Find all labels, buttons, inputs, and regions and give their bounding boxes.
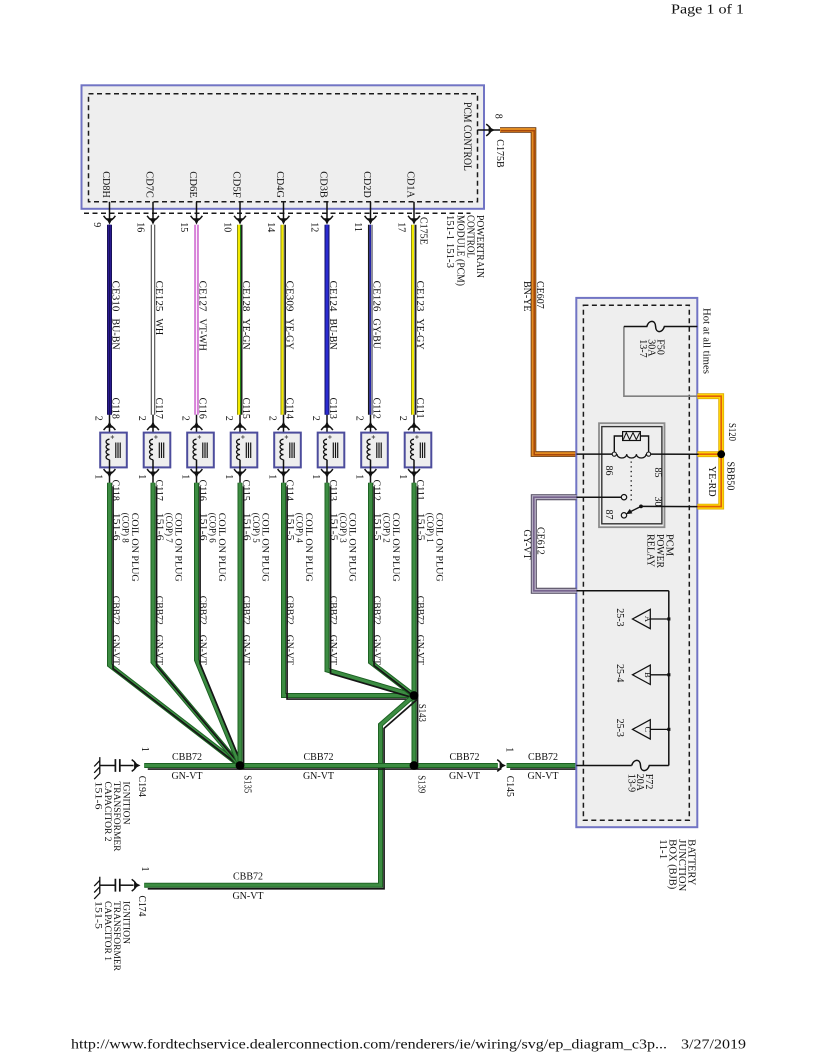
svg-text:1: 1: [93, 474, 104, 479]
svg-text:GN-VT: GN-VT: [171, 771, 202, 782]
coil core lines: [159, 443, 163, 459]
wire CBB72 GN-VT: [153, 483, 240, 766]
coil polarity mark: [328, 435, 331, 438]
svg-text:CD2D: CD2D: [361, 171, 372, 198]
connector arrow out of PCM: [150, 218, 156, 224]
relay coil: [617, 454, 646, 458]
svg-text:PCM CONTROL: PCM CONTROL: [461, 102, 473, 171]
wire CBB72 GN-VT: [197, 483, 241, 766]
svg-text:B: B: [643, 672, 653, 678]
coil on plug 6 box: [187, 433, 214, 468]
svg-text:S143: S143: [416, 704, 427, 722]
svg-text:CD1A: CD1A: [404, 171, 415, 198]
svg-text:CE607: CE607: [534, 281, 545, 309]
connector arrow C175B: [489, 127, 495, 133]
pin 86 line: [577, 453, 613, 455]
svg-text:GN-VT: GN-VT: [284, 635, 295, 665]
svg-text:25-4: 25-4: [614, 664, 625, 682]
stub out of coil: [152, 460, 154, 483]
stub out of coil: [239, 460, 241, 483]
svg-text:11-1: 11-1: [657, 839, 668, 859]
diode bus vertical: [668, 591, 670, 766]
BJB inner dashed border: [583, 305, 689, 820]
coil connector arrow (pin 1): [150, 472, 156, 478]
svg-text:http://www.fordtechservice.dea: http://www.fordtechservice.dealerconnect…: [71, 1037, 667, 1052]
svg-text:25-3: 25-3: [614, 719, 625, 737]
svg-text:YE-GY: YE-GY: [414, 319, 425, 350]
svg-text:CBB72: CBB72: [172, 752, 202, 763]
coil polarity mark: [241, 435, 244, 438]
svg-text:2: 2: [397, 416, 408, 421]
wire stub to S120: [697, 451, 719, 457]
svg-text:C111: C111: [414, 398, 425, 419]
wire CE310 BU-BN: [107, 225, 112, 415]
capacitor CAPACITOR 1 plates: [115, 879, 119, 892]
svg-text:C: C: [643, 727, 653, 733]
coil polarity mark: [285, 435, 288, 438]
pin stub wire: [326, 202, 328, 223]
svg-text:16: 16: [134, 222, 145, 232]
svg-text:BU-BN: BU-BN: [109, 319, 120, 350]
svg-text:RELAY: RELAY: [645, 534, 656, 567]
svg-text:CBB72: CBB72: [153, 596, 164, 625]
svg-text:30: 30: [652, 497, 663, 507]
pin 87 line: [577, 496, 622, 498]
coil connector arrow (pin 1): [193, 472, 199, 478]
svg-text:GN-VT: GN-VT: [153, 635, 164, 665]
connector arrow C145: [500, 762, 506, 768]
svg-text:GN-VT: GN-VT: [371, 635, 382, 665]
coil connector arrow (pin 2): [367, 421, 373, 427]
resistor links: [614, 436, 648, 452]
fuse F50 box: [624, 327, 697, 397]
svg-text:GN-VT: GN-VT: [449, 771, 480, 782]
connector arrow C174: [134, 882, 140, 888]
svg-text:87: 87: [603, 510, 614, 520]
connector arrow out of PCM: [193, 218, 199, 224]
coil connector arrow (pin 1): [237, 472, 243, 478]
connector arrow out of PCM: [237, 218, 243, 224]
svg-text:YE-RD: YE-RD: [706, 466, 717, 497]
stub out of coil: [370, 460, 372, 483]
coil core lines: [290, 443, 294, 459]
coil core lines: [377, 443, 381, 459]
connector C175E dashed face: [84, 212, 471, 214]
stub into coil connector: [239, 415, 241, 440]
svg-text:GN-VT: GN-VT: [197, 635, 208, 665]
wire CBB72 GN-VT: [327, 483, 414, 696]
splice S143: [410, 691, 419, 700]
svg-text:GN-VT: GN-VT: [232, 891, 263, 902]
coil connector arrow (pin 2): [411, 421, 417, 427]
wire S143 to S139: [412, 696, 417, 766]
svg-text:C174: C174: [136, 896, 147, 917]
svg-text:1: 1: [180, 474, 191, 479]
wire CBB72 GN-VT: [371, 483, 415, 696]
svg-text:CE126: CE126: [370, 281, 381, 312]
stub out of coil: [413, 460, 415, 483]
coil connector arrow (pin 1): [324, 472, 330, 478]
coil connector arrow (pin 2): [106, 421, 112, 427]
svg-text:GN-VT: GN-VT: [240, 635, 251, 665]
wire CE127 VT-WH: [194, 225, 199, 415]
svg-text:3/27/2019: 3/27/2019: [681, 1037, 746, 1052]
coil winding symbol: [280, 439, 283, 460]
svg-text:14: 14: [265, 222, 276, 232]
svg-text:25-3: 25-3: [614, 608, 625, 626]
svg-text:C175E: C175E: [417, 217, 428, 245]
coil core lines: [203, 443, 207, 459]
splice S120: [717, 450, 725, 458]
coil on plug 4 box: [274, 433, 301, 468]
svg-text:8: 8: [492, 114, 503, 119]
svg-text:CBB72: CBB72: [371, 596, 382, 625]
coil connector arrow (pin 1): [411, 472, 417, 478]
svg-text:CD8H: CD8H: [100, 171, 111, 198]
relay contact pivot: [621, 513, 626, 518]
svg-text:1: 1: [504, 747, 515, 752]
pin stub wire: [413, 202, 415, 223]
svg-text:CE125: CE125: [153, 281, 164, 312]
svg-text:12: 12: [308, 222, 319, 232]
wire C194 to C145 main run: [144, 763, 498, 768]
svg-text:1: 1: [354, 474, 365, 479]
svg-text:C145: C145: [504, 776, 515, 797]
connector arrow out of PCM: [411, 218, 417, 224]
coil winding symbol: [237, 439, 240, 460]
svg-text:C175B: C175B: [494, 139, 505, 168]
fuse F50 element: [624, 321, 697, 331]
wire CE123 YE-GY: [412, 225, 415, 415]
svg-text:CE127: CE127: [196, 281, 207, 312]
coil core lines: [246, 443, 250, 459]
svg-text:C113: C113: [327, 398, 338, 419]
svg-text:A: A: [643, 616, 653, 623]
splice S135: [236, 761, 245, 770]
wire into F72: [576, 765, 631, 767]
PCM module box: [82, 85, 485, 209]
svg-text:151-1 151-3: 151-1 151-3: [444, 215, 455, 268]
svg-text:85: 85: [652, 468, 663, 478]
svg-text:CBB72: CBB72: [240, 596, 251, 625]
svg-text:2: 2: [223, 416, 234, 421]
wire to capacitor: [100, 765, 116, 767]
svg-text:SBB50: SBB50: [724, 462, 735, 491]
svg-text:CD5F: CD5F: [230, 171, 241, 198]
connector arrow out of PCM: [280, 218, 286, 224]
svg-text:CBB72: CBB72: [327, 596, 338, 625]
coil connector arrow (pin 1): [280, 472, 286, 478]
pin stub wire: [196, 202, 198, 223]
ground for C194: [94, 757, 100, 779]
connector arrow C194: [134, 762, 140, 768]
pin stub wire: [370, 202, 372, 223]
svg-text:S120: S120: [726, 423, 737, 441]
relay outer box: [599, 423, 665, 527]
svg-text:YE-GN: YE-GN: [240, 319, 251, 350]
svg-text:C112: C112: [370, 398, 381, 419]
diode C 25-3: [650, 728, 669, 730]
svg-text:17: 17: [395, 222, 406, 232]
svg-text:2: 2: [180, 416, 191, 421]
stub into coil connector: [152, 415, 154, 440]
coil core lines: [420, 443, 424, 459]
svg-text:CD4G: CD4G: [274, 171, 285, 198]
svg-text:9: 9: [91, 222, 102, 227]
svg-text:2: 2: [93, 416, 104, 421]
svg-text:S135: S135: [241, 775, 252, 793]
wire plate to connector: [120, 884, 134, 886]
svg-text:1: 1: [139, 747, 150, 752]
coil winding symbol: [193, 439, 196, 460]
svg-text:BN-YE: BN-YE: [521, 281, 532, 312]
relay coil terminals: [612, 452, 616, 456]
connector arrow out of PCM: [106, 218, 112, 224]
svg-text:S139: S139: [415, 775, 426, 793]
svg-text:1: 1: [310, 474, 321, 479]
svg-text:CBB72: CBB72: [233, 871, 263, 882]
svg-text:GN-VT: GN-VT: [327, 635, 338, 665]
relay actuator dotted line: [630, 462, 632, 502]
svg-text:CBB72: CBB72: [284, 596, 295, 625]
pin 85 line: [651, 453, 699, 455]
wire SBB50 YE-RD: [697, 396, 721, 506]
battery junction box: [576, 298, 697, 827]
connector arrow out of PCM: [324, 218, 330, 224]
stub into coil connector: [109, 415, 111, 440]
coil winding symbol: [324, 439, 327, 460]
wire CBB72 GN-VT: [110, 483, 241, 766]
svg-text:CE612: CE612: [534, 527, 545, 555]
capacitor CAPACITOR 2 plates: [115, 759, 119, 772]
wire CE607 BN-YE: [500, 130, 577, 454]
relay switch blade: [629, 506, 642, 512]
svg-text:86: 86: [603, 466, 614, 476]
wire S143 to C174 capacitor: [144, 696, 414, 886]
svg-text:GY-BU: GY-BU: [370, 319, 381, 350]
svg-text:GN-VT: GN-VT: [527, 771, 558, 782]
svg-text:YE-GY: YE-GY: [283, 319, 294, 350]
svg-text:CBB72: CBB72: [110, 596, 121, 625]
svg-text:1: 1: [139, 867, 150, 872]
pin 30 line: [641, 505, 697, 507]
svg-text:2: 2: [267, 416, 278, 421]
stub into coil connector: [370, 415, 372, 440]
coil on plug 1 box: [405, 433, 432, 468]
svg-text:C115: C115: [240, 398, 251, 419]
coil winding symbol: [411, 439, 414, 460]
svg-text:1: 1: [223, 474, 234, 479]
relay inner box: [602, 427, 662, 524]
wire CE124 BU-BN: [325, 225, 330, 415]
pin 8 stub out of PCM: [478, 129, 501, 131]
coil connector arrow (pin 1): [367, 472, 373, 478]
svg-text:CBB72: CBB72: [414, 596, 425, 625]
coil core lines: [333, 443, 337, 459]
svg-text:CE309: CE309: [283, 281, 294, 312]
svg-text:CBB72: CBB72: [528, 752, 558, 763]
svg-text:15: 15: [178, 222, 189, 232]
svg-text:CE124: CE124: [327, 281, 338, 312]
coil winding symbol: [367, 439, 370, 460]
wire to capacitor: [100, 884, 116, 886]
svg-text:151-5: 151-5: [93, 901, 103, 929]
coil polarity mark: [415, 435, 418, 438]
stub out of coil: [196, 460, 198, 483]
coil on plug 3 box: [318, 433, 345, 468]
wire plate to connector: [120, 765, 134, 767]
svg-text:C194: C194: [136, 776, 147, 797]
coil connector arrow (pin 2): [324, 421, 330, 427]
pin stub wire: [152, 202, 154, 223]
pin stub wire: [283, 202, 285, 223]
connector arrow out of PCM: [367, 218, 373, 224]
svg-text:GN-VT: GN-VT: [414, 635, 425, 665]
svg-text:CD7C: CD7C: [143, 171, 154, 198]
coil polarity mark: [372, 435, 375, 438]
bus wire from CE612 to diodes: [577, 590, 669, 592]
svg-text:C116: C116: [196, 398, 207, 419]
svg-text:C114: C114: [283, 398, 294, 419]
stub out of coil: [326, 460, 328, 483]
svg-text:GN-VT: GN-VT: [110, 635, 121, 665]
svg-text:CE123: CE123: [414, 281, 425, 312]
svg-text:MODULE (PCM): MODULE (PCM): [455, 215, 466, 286]
svg-text:BU-BN: BU-BN: [327, 319, 338, 350]
wire CE126 GY-BU: [368, 225, 370, 415]
svg-text:GN-VT: GN-VT: [303, 771, 334, 782]
svg-text:CBB72: CBB72: [449, 752, 479, 763]
stub into coil connector: [196, 415, 198, 440]
svg-text:10: 10: [221, 222, 232, 232]
svg-text:WH: WH: [153, 319, 164, 336]
fuse F72 element: [632, 760, 669, 770]
wire CE128 YE-GN: [238, 225, 241, 415]
svg-text:CE128: CE128: [240, 281, 251, 312]
svg-text:CD3B: CD3B: [317, 171, 328, 198]
pin stub wire: [239, 202, 241, 223]
coil on plug 8 box: [100, 433, 127, 468]
svg-text:1: 1: [267, 474, 278, 479]
svg-text:1: 1: [136, 474, 147, 479]
coil polarity mark: [198, 435, 201, 438]
svg-text:2: 2: [354, 416, 365, 421]
svg-text:C118: C118: [109, 398, 120, 419]
pin stub wire: [109, 202, 111, 223]
svg-text:GY-VT: GY-VT: [521, 530, 532, 560]
svg-text:Page 1 of 1: Page 1 of 1: [671, 2, 744, 17]
wire CBB72 GN-VT: [284, 483, 415, 696]
stub out of coil: [283, 460, 285, 483]
diode A 25-3: [650, 618, 669, 620]
coil on plug 5 box: [231, 433, 258, 468]
coil core lines: [116, 443, 120, 459]
coil connector arrow (pin 2): [193, 421, 199, 427]
svg-text:1: 1: [397, 474, 408, 479]
wire CE612 GY-VT: [534, 497, 577, 591]
svg-text:C117: C117: [153, 398, 164, 419]
coil on plug 2 box: [361, 433, 388, 468]
stub out of coil: [109, 460, 111, 483]
coil connector arrow (pin 2): [150, 421, 156, 427]
coil polarity mark: [154, 435, 157, 438]
svg-text:13-7: 13-7: [637, 339, 648, 357]
wire CBB72 GN-VT: [238, 483, 243, 766]
svg-text:VT-WH: VT-WH: [196, 319, 207, 351]
coil connector arrow (pin 2): [280, 421, 286, 427]
coil connector arrow (pin 2): [237, 421, 243, 427]
svg-text:CD6E: CD6E: [187, 171, 198, 198]
ground for C174: [94, 877, 100, 899]
wire CBB72 GN-VT: [412, 483, 417, 696]
svg-text:2: 2: [136, 416, 147, 421]
relay resistor box: [623, 432, 641, 441]
svg-text:CBB72: CBB72: [303, 752, 333, 763]
coil winding symbol: [106, 439, 109, 460]
diode B 25-4: [650, 674, 669, 676]
coil polarity mark: [111, 435, 114, 438]
coil winding symbol: [150, 439, 153, 460]
relay contact 87: [621, 495, 626, 500]
coil connector arrow (pin 1): [106, 472, 112, 478]
stub into coil connector: [413, 415, 415, 440]
svg-text:2: 2: [310, 416, 321, 421]
svg-text:13-9: 13-9: [625, 774, 636, 792]
wire CE309 YE-GY: [281, 225, 284, 415]
PCM inner dashed border: [89, 94, 478, 202]
svg-text:CE310: CE310: [109, 281, 120, 312]
svg-text:11: 11: [352, 222, 363, 232]
stub into coil connector: [283, 415, 285, 440]
coil on plug 7 box: [144, 433, 171, 468]
stub into coil connector: [326, 415, 328, 440]
svg-text:Hot at all times: Hot at all times: [700, 308, 711, 374]
wire CE125 WH: [151, 225, 155, 415]
svg-text:CBB72: CBB72: [197, 596, 208, 625]
splice S139: [410, 761, 419, 770]
svg-text:151-6: 151-6: [93, 782, 103, 810]
relay resistor zigzag: [623, 433, 639, 440]
